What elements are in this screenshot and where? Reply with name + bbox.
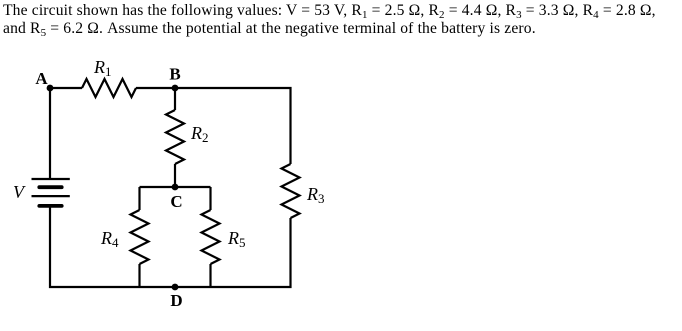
- node A: [47, 85, 54, 92]
- wire battery top to A: [49, 88, 51, 179]
- wire R1 to B to top-right corner and down to R3: [136, 88, 291, 164]
- svg-text:R1: R1: [93, 57, 112, 79]
- node C: [172, 184, 179, 191]
- wire R3 to bottom rail to battery bottom: [50, 207, 291, 287]
- wire C to R5: [209, 187, 211, 210]
- node D: [172, 284, 179, 291]
- svg-text:R5: R5: [227, 228, 246, 250]
- label D: [170, 291, 182, 310]
- svg-text:R2: R2: [190, 123, 209, 145]
- label R1: [93, 57, 112, 79]
- battery V: [32, 179, 70, 206]
- wire C crossbar: [140, 186, 211, 188]
- svg-text:C: C: [170, 192, 182, 211]
- label A: [35, 69, 48, 88]
- resistor R2: [166, 110, 184, 164]
- label R2: [190, 123, 209, 145]
- resistor R5: [202, 210, 220, 264]
- resistor R4: [131, 210, 149, 264]
- label R5: [227, 228, 246, 250]
- label R4: [100, 228, 119, 250]
- svg-text:V: V: [13, 182, 26, 202]
- node B: [172, 85, 179, 92]
- label C: [170, 192, 182, 211]
- svg-text:A: A: [35, 69, 48, 88]
- svg-text:B: B: [169, 65, 180, 84]
- resistor R3: [282, 164, 300, 218]
- wire R5 to bottom rail: [209, 264, 211, 287]
- wire B to R2: [174, 88, 176, 110]
- wire R2 to C: [174, 164, 176, 187]
- wire A to R1: [50, 87, 82, 89]
- svg-text:D: D: [170, 291, 182, 310]
- label R3: [306, 184, 325, 206]
- svg-text:R4: R4: [100, 228, 119, 250]
- wire R4 to bottom rail: [138, 264, 140, 287]
- label B: [169, 65, 180, 84]
- resistor R1: [82, 79, 136, 97]
- wire C to R4: [138, 187, 140, 210]
- svg-text:R3: R3: [306, 184, 325, 206]
- label V: [13, 182, 26, 202]
